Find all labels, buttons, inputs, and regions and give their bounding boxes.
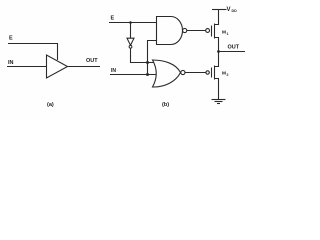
svg-text:1: 1	[227, 32, 229, 36]
svg-text:(b): (b)	[162, 102, 169, 108]
svg-text:E: E	[9, 36, 13, 42]
svg-text:(a): (a)	[47, 102, 54, 108]
svg-text:DD: DD	[232, 9, 238, 13]
svg-text:IN: IN	[8, 60, 14, 66]
svg-text:OUT: OUT	[228, 45, 240, 51]
svg-text:IN: IN	[111, 68, 116, 74]
svg-text:M: M	[222, 30, 226, 36]
svg-text:M: M	[222, 71, 226, 77]
svg-text:OUT: OUT	[86, 58, 98, 64]
svg-text:2: 2	[227, 73, 229, 77]
svg-text:V: V	[227, 7, 231, 13]
svg-text:E: E	[111, 16, 115, 22]
